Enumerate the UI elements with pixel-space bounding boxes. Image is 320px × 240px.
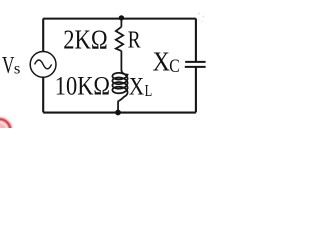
faint dots top-right bbox=[198, 12, 205, 22]
capacitor XC plate bottom bbox=[185, 66, 206, 68]
node bottom junction bbox=[115, 110, 121, 116]
wire left upper bbox=[42, 19, 44, 52]
resistor R zigzag bbox=[116, 27, 123, 51]
svg-text:2KΩ: 2KΩ bbox=[63, 25, 107, 55]
wire middle branch upper bbox=[120, 18, 122, 27]
svg-text:V: V bbox=[2, 52, 15, 79]
wire right lower bbox=[195, 68, 197, 113]
wire right upper bbox=[195, 19, 197, 62]
svg-text:C: C bbox=[169, 57, 180, 77]
red watermark blob bottom-left bbox=[0, 116, 14, 144]
voltage source Vs circle bbox=[30, 52, 56, 78]
inductor XL coil bbox=[112, 51, 127, 113]
svg-text:R: R bbox=[128, 26, 141, 53]
svg-text:L: L bbox=[145, 81, 153, 100]
node top junction bbox=[119, 15, 124, 20]
capacitor XC plate top bbox=[185, 61, 205, 63]
wire bottom bbox=[43, 112, 196, 114]
svg-text:s: s bbox=[14, 60, 21, 77]
sine wave inside source bbox=[35, 60, 52, 69]
svg-text:X: X bbox=[153, 47, 171, 77]
wire left lower bbox=[42, 77, 44, 112]
svg-text:X: X bbox=[129, 74, 144, 101]
svg-text:10KΩ: 10KΩ bbox=[55, 71, 110, 101]
wire top bbox=[43, 18, 196, 20]
